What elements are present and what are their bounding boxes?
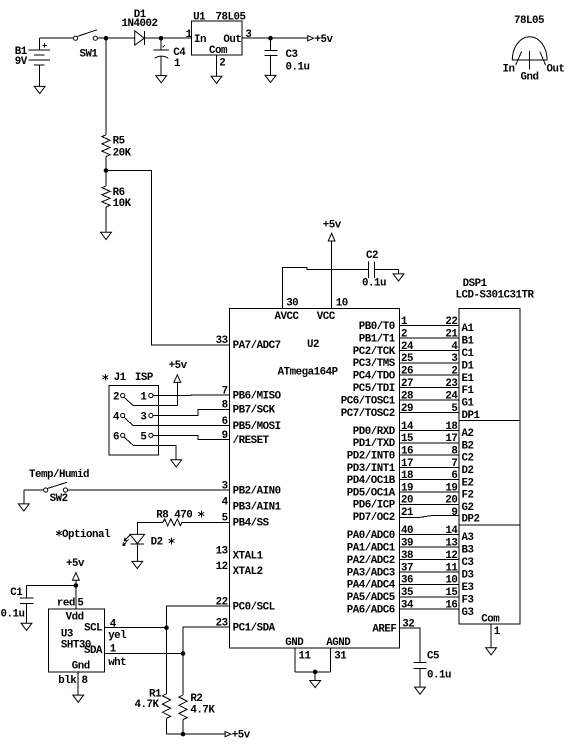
svg-text:B2: B2 bbox=[462, 440, 474, 452]
svg-text:G1: G1 bbox=[462, 398, 475, 410]
svg-text:1: 1 bbox=[140, 392, 147, 404]
connector J1 pins 4/3 bbox=[113, 412, 153, 426]
wire bbox=[166, 628, 168, 694]
svg-text:5: 5 bbox=[451, 403, 457, 415]
svg-text:0.1u: 0.1u bbox=[286, 61, 310, 73]
svg-text:33: 33 bbox=[216, 335, 228, 347]
svg-text:6: 6 bbox=[113, 431, 119, 443]
pin 31 AGND bbox=[326, 637, 351, 672]
power +5v bbox=[169, 360, 188, 406]
capacitor C3 0.1u bbox=[264, 38, 309, 75]
svg-text:wht: wht bbox=[108, 657, 126, 669]
wire PA3/ADC3 pin 37 to LCD D3 pin 11 bbox=[347, 562, 474, 581]
resistor R1 4.7K bbox=[135, 689, 171, 719]
switch SW2 bbox=[44, 482, 68, 505]
svg-text:32: 32 bbox=[402, 619, 414, 631]
node junction bbox=[159, 36, 164, 41]
asterisk bbox=[102, 374, 108, 381]
resistor R6 10K bbox=[102, 186, 132, 210]
svg-text:13: 13 bbox=[445, 537, 457, 549]
battery B1 bbox=[15, 38, 50, 86]
svg-text:VCC: VCC bbox=[317, 311, 336, 323]
wire PD2/INT0 pin 16 to LCD C2 pin 8 bbox=[347, 446, 474, 465]
svg-text:9: 9 bbox=[222, 430, 228, 442]
wire PA6/ADC6 pin 34 to LCD G3 pin 16 bbox=[347, 600, 474, 619]
svg-text:4: 4 bbox=[222, 497, 229, 509]
IC U2 ATmega164P bbox=[230, 308, 400, 647]
capacitor C4 1 bbox=[153, 38, 186, 75]
pin 23 label PC1/SDA bbox=[216, 617, 276, 634]
svg-text:34: 34 bbox=[401, 600, 414, 612]
ground bbox=[18, 504, 29, 511]
svg-text:29: 29 bbox=[401, 403, 413, 415]
wire bbox=[182, 720, 184, 735]
svg-text:4.7K: 4.7K bbox=[135, 699, 160, 711]
svg-text:8: 8 bbox=[451, 446, 457, 458]
ground bbox=[415, 687, 426, 694]
ground bbox=[310, 672, 321, 688]
resistor R2 4.7K bbox=[179, 693, 215, 720]
svg-text:DP2: DP2 bbox=[462, 513, 480, 525]
svg-text:PD4/OC1B: PD4/OC1B bbox=[347, 475, 396, 487]
svg-text:20: 20 bbox=[445, 495, 457, 507]
pin 7 label PB6/MISO bbox=[222, 385, 282, 402]
svg-text:E1: E1 bbox=[462, 373, 475, 385]
svg-text:37: 37 bbox=[401, 562, 413, 574]
svg-text:11: 11 bbox=[299, 650, 312, 662]
resistor R8 470 bbox=[156, 510, 192, 526]
svg-text:/RESET: /RESET bbox=[233, 435, 270, 447]
wire bbox=[182, 521, 230, 523]
svg-text:PC4/TDO: PC4/TDO bbox=[353, 371, 396, 383]
pin 3 label bbox=[245, 29, 251, 41]
regulator U1 78L05 bbox=[192, 12, 246, 57]
wire bbox=[242, 37, 308, 39]
wire PD5/OC1A pin 19 to LCD F2 pin 19 bbox=[347, 482, 474, 501]
svg-text:PB5/MOSI: PB5/MOSI bbox=[233, 421, 281, 433]
svg-text:14: 14 bbox=[401, 421, 414, 433]
node junction bbox=[313, 670, 318, 675]
svg-text:+5v: +5v bbox=[315, 34, 334, 46]
svg-text:4.7K: 4.7K bbox=[190, 704, 215, 716]
svg-text:+5v: +5v bbox=[232, 730, 251, 742]
pin 4 label PB3/AIN1 bbox=[222, 497, 282, 514]
pin 6 label PB5/MOSI bbox=[222, 416, 281, 433]
svg-text:C1: C1 bbox=[462, 348, 475, 360]
wire divider digit2 bbox=[459, 524, 520, 526]
svg-text:PD6/ICP: PD6/ICP bbox=[353, 500, 396, 512]
svg-text:19: 19 bbox=[401, 482, 413, 494]
svg-text:22: 22 bbox=[445, 316, 457, 328]
svg-text:SW2: SW2 bbox=[50, 493, 68, 505]
wire VCC pin 10 bbox=[317, 241, 348, 323]
svg-text:26: 26 bbox=[401, 366, 413, 378]
node junction bbox=[74, 583, 79, 588]
svg-text:SW1: SW1 bbox=[80, 49, 99, 61]
svg-text:U2: U2 bbox=[307, 339, 319, 351]
ground bbox=[486, 648, 497, 655]
svg-text:16: 16 bbox=[401, 446, 413, 458]
wire PB0/T0 pin 1 to LCD A1 pin 22 bbox=[359, 316, 475, 335]
svg-text:PB2/AIN0: PB2/AIN0 bbox=[233, 485, 281, 497]
svg-text:5: 5 bbox=[77, 597, 83, 609]
svg-text:PA2/ADC2: PA2/ADC2 bbox=[347, 555, 395, 567]
svg-text:1: 1 bbox=[494, 626, 501, 638]
svg-text:B3: B3 bbox=[462, 545, 474, 557]
svg-text:C3: C3 bbox=[286, 49, 298, 61]
svg-text:2: 2 bbox=[451, 366, 457, 378]
svg-text:XTAL2: XTAL2 bbox=[233, 566, 263, 578]
svg-text:PC0/SCL: PC0/SCL bbox=[233, 602, 275, 614]
svg-text:D2: D2 bbox=[462, 465, 474, 477]
wire PC4/TDO pin 26 to LCD E1 pin 2 bbox=[353, 366, 475, 385]
svg-text:17: 17 bbox=[401, 458, 413, 470]
wire bbox=[97, 37, 134, 39]
asterisk bbox=[198, 511, 204, 518]
svg-text:PB0/T0: PB0/T0 bbox=[359, 321, 395, 333]
svg-text:36: 36 bbox=[401, 575, 413, 587]
pin 2 label bbox=[219, 57, 225, 69]
wire bbox=[105, 157, 107, 186]
ground bbox=[34, 86, 45, 93]
svg-text:+5v: +5v bbox=[66, 558, 85, 570]
wire PA5/ADC5 pin 35 to LCD F3 pin 15 bbox=[347, 587, 474, 606]
svg-text:PA4/ADC4: PA4/ADC4 bbox=[347, 580, 396, 592]
svg-text:15: 15 bbox=[445, 587, 457, 599]
svg-text:J1: J1 bbox=[114, 372, 127, 384]
svg-text:9V: 9V bbox=[15, 56, 28, 68]
pin 13 label XTAL1 bbox=[216, 545, 264, 562]
svg-text:C2: C2 bbox=[366, 250, 378, 262]
svg-text:PB6/MISO: PB6/MISO bbox=[233, 390, 282, 402]
svg-text:8: 8 bbox=[82, 675, 88, 687]
svg-text:40: 40 bbox=[401, 525, 413, 537]
svg-text:blk: blk bbox=[58, 675, 77, 687]
svg-text:B1: B1 bbox=[462, 336, 475, 348]
svg-text:6: 6 bbox=[222, 416, 228, 428]
svg-text:4: 4 bbox=[451, 341, 458, 353]
wire bbox=[399, 628, 420, 662]
pin 11 GND bbox=[285, 637, 311, 672]
svg-text:12: 12 bbox=[216, 561, 228, 573]
wire PC5/TDI pin 27 to LCD F1 pin 23 bbox=[353, 378, 475, 397]
ground bbox=[156, 76, 167, 83]
svg-text:11: 11 bbox=[445, 562, 458, 574]
svg-text:PC6/TOSC1: PC6/TOSC1 bbox=[341, 395, 396, 407]
node junction bbox=[164, 625, 169, 630]
svg-text:1: 1 bbox=[174, 58, 181, 70]
svg-text:In: In bbox=[194, 34, 206, 46]
wire bbox=[40, 37, 74, 39]
svg-text:PC5/TDI: PC5/TDI bbox=[353, 383, 395, 395]
svg-text:27: 27 bbox=[401, 378, 413, 390]
svg-text:PC7/TOSC2: PC7/TOSC2 bbox=[341, 408, 395, 420]
svg-text:28: 28 bbox=[401, 390, 413, 402]
pin 9 label /RESET bbox=[222, 430, 270, 447]
svg-text:XTAL1: XTAL1 bbox=[233, 550, 264, 562]
svg-text:A3: A3 bbox=[462, 532, 474, 544]
display DSP1 LCD-S301C31TR box bbox=[456, 278, 535, 624]
svg-text:F1: F1 bbox=[462, 385, 475, 397]
svg-text:PC3/TMS: PC3/TMS bbox=[353, 358, 396, 370]
wire pin5 to /RESET bbox=[153, 435, 230, 439]
svg-text:Out: Out bbox=[547, 63, 565, 75]
wire bbox=[166, 718, 168, 734]
svg-text:78L05: 78L05 bbox=[514, 15, 544, 27]
label Optional bbox=[62, 529, 111, 541]
pin 8 label PB7/SCK bbox=[222, 400, 276, 417]
wire PC7/TOSC2 pin 29 to LCD DP1 pin 5 bbox=[341, 403, 481, 422]
connector J1 ISP box bbox=[109, 372, 159, 455]
svg-text:PD5/OC1A: PD5/OC1A bbox=[347, 487, 396, 499]
svg-text:6: 6 bbox=[451, 470, 457, 482]
wire PA1/ADC1 pin 39 to LCD B3 pin 13 bbox=[347, 537, 474, 556]
wire PD1/TXD pin 15 to LCD B2 pin 17 bbox=[353, 433, 474, 452]
sensor U3 SHT30 box bbox=[49, 609, 105, 673]
svg-text:23: 23 bbox=[216, 617, 228, 629]
svg-text:PB7/SCK: PB7/SCK bbox=[233, 405, 276, 417]
svg-text:C1: C1 bbox=[10, 587, 23, 599]
wire bbox=[137, 522, 163, 534]
switch SW1 bbox=[73, 30, 98, 61]
pin 22 label PC0/SCL bbox=[216, 597, 275, 614]
wire PA0/ADC0 pin 40 to LCD A3 pin 14 bbox=[347, 525, 474, 544]
svg-text:PD3/INT1: PD3/INT1 bbox=[347, 463, 396, 475]
power +5v bbox=[323, 219, 342, 241]
svg-text:0.1u: 0.1u bbox=[1, 609, 25, 621]
power +5v bbox=[225, 730, 251, 742]
wire bbox=[144, 37, 191, 39]
ground bbox=[101, 232, 112, 239]
svg-text:E2: E2 bbox=[462, 477, 474, 489]
svg-text:U1: U1 bbox=[193, 12, 206, 24]
svg-text:1: 1 bbox=[186, 29, 193, 41]
ground bbox=[211, 76, 222, 83]
svg-text:D2: D2 bbox=[151, 536, 163, 548]
svg-text:PB4/SS: PB4/SS bbox=[233, 518, 270, 530]
svg-text:Com: Com bbox=[209, 45, 228, 57]
svg-text:5: 5 bbox=[222, 513, 228, 525]
svg-text:PA3/ADC3: PA3/ADC3 bbox=[347, 567, 395, 579]
wire bbox=[216, 55, 218, 76]
svg-text:DP1: DP1 bbox=[462, 410, 481, 422]
wire pin 1 SDA bbox=[104, 643, 183, 669]
svg-text:Gnd: Gnd bbox=[521, 71, 539, 83]
wire bbox=[105, 207, 107, 232]
wire PC3/TMS pin 25 to LCD D1 pin 3 bbox=[353, 353, 475, 372]
wire bbox=[106, 171, 230, 345]
wire PA4/ADC4 pin 36 to LCD E3 pin 10 bbox=[347, 575, 474, 594]
svg-text:AVCC: AVCC bbox=[275, 311, 300, 323]
svg-text:10: 10 bbox=[445, 575, 457, 587]
wire divider digit1 bbox=[459, 419, 520, 421]
svg-text:24: 24 bbox=[445, 390, 458, 402]
svg-text:17: 17 bbox=[445, 433, 457, 445]
pin 33 label PA7/ADC7 bbox=[216, 335, 281, 352]
svg-text:15: 15 bbox=[401, 433, 413, 445]
svg-text:PD2/INT0: PD2/INT0 bbox=[347, 451, 395, 463]
svg-text:30: 30 bbox=[286, 298, 298, 310]
pin 32 AREF bbox=[372, 619, 414, 636]
wire bbox=[105, 38, 107, 134]
wire bbox=[27, 585, 76, 587]
svg-text:3: 3 bbox=[222, 480, 228, 492]
wire pin4 to PB5/MOSI bbox=[133, 424, 229, 426]
wire bbox=[295, 671, 331, 673]
svg-text:R5: R5 bbox=[113, 136, 125, 148]
svg-text:19: 19 bbox=[445, 482, 457, 494]
capacitor C5 0.1u bbox=[414, 651, 451, 687]
ground bbox=[171, 460, 182, 467]
svg-text:1: 1 bbox=[110, 643, 117, 655]
svg-text:F2: F2 bbox=[462, 490, 474, 502]
wire pin 4 SCL bbox=[104, 618, 166, 642]
wire SCL to PC0/SCL bbox=[167, 606, 230, 628]
svg-text:16: 16 bbox=[445, 600, 457, 612]
node junction bbox=[181, 732, 186, 737]
svg-text:AGND: AGND bbox=[326, 637, 351, 649]
wire bbox=[136, 544, 138, 562]
svg-text:R2: R2 bbox=[190, 693, 202, 705]
svg-text:PD7/OC2: PD7/OC2 bbox=[353, 512, 395, 524]
svg-text:3: 3 bbox=[451, 353, 457, 365]
svg-text:E3: E3 bbox=[462, 582, 474, 594]
svg-text:23: 23 bbox=[445, 378, 457, 390]
svg-text:10K: 10K bbox=[113, 198, 132, 210]
wire bbox=[68, 489, 230, 491]
svg-text:7: 7 bbox=[222, 385, 228, 397]
svg-text:1: 1 bbox=[401, 316, 408, 328]
connector J1 pins 2/1 bbox=[113, 392, 153, 406]
wire bbox=[24, 489, 44, 491]
power +5v bbox=[66, 558, 85, 585]
wire AVCC pin 30 bbox=[275, 267, 332, 323]
svg-text:C3: C3 bbox=[462, 557, 474, 569]
svg-text:AREF: AREF bbox=[372, 624, 396, 636]
asterisk bbox=[56, 530, 62, 537]
svg-text:PA7/ADC7: PA7/ADC7 bbox=[233, 340, 281, 352]
svg-text:0.1u: 0.1u bbox=[362, 277, 386, 289]
wire PD6/ICP pin 20 to LCD G2 pin 20 bbox=[353, 495, 474, 514]
svg-text:10: 10 bbox=[336, 298, 348, 310]
wire bbox=[182, 654, 184, 696]
svg-text:D3: D3 bbox=[462, 570, 474, 582]
svg-text:DSP1: DSP1 bbox=[463, 278, 488, 290]
svg-text:A1: A1 bbox=[462, 323, 475, 335]
svg-text:PA6/ADC6: PA6/ADC6 bbox=[347, 605, 395, 617]
pin 1 Com of DSP1 bbox=[481, 614, 500, 648]
wire bbox=[167, 733, 226, 735]
svg-text:5: 5 bbox=[140, 431, 146, 443]
ground bbox=[265, 75, 276, 82]
svg-text:12: 12 bbox=[445, 550, 457, 562]
svg-text:Optional: Optional bbox=[62, 529, 111, 541]
svg-text:PD0/RXD: PD0/RXD bbox=[353, 426, 396, 438]
svg-text:31: 31 bbox=[334, 650, 347, 662]
pin 5 label PB4/SS bbox=[222, 513, 270, 530]
wire PA2/ADC2 pin 38 to LCD C3 pin 12 bbox=[347, 550, 474, 569]
wire bbox=[23, 490, 25, 504]
wire PD7/OC2 pin 21 to LCD DP2 pin 9 bbox=[353, 507, 480, 525]
svg-text:SCL: SCL bbox=[84, 622, 102, 634]
pin 3 label PB2/AIN0 bbox=[222, 480, 281, 497]
pin 1 label bbox=[186, 29, 193, 41]
svg-text:LCD-S301C31TR: LCD-S301C31TR bbox=[456, 290, 535, 302]
svg-text:PC1/SDA: PC1/SDA bbox=[233, 622, 276, 634]
wire pin1 to PB6/MISO bbox=[153, 394, 230, 397]
svg-text:A2: A2 bbox=[462, 428, 474, 440]
svg-text:R8 470: R8 470 bbox=[156, 510, 192, 522]
svg-text:7: 7 bbox=[451, 458, 457, 470]
svg-text:R6: R6 bbox=[113, 187, 125, 199]
svg-text:2: 2 bbox=[113, 392, 119, 404]
svg-text:78L05: 78L05 bbox=[216, 12, 246, 24]
svg-text:3: 3 bbox=[245, 29, 251, 41]
svg-text:PB1/T1: PB1/T1 bbox=[359, 333, 396, 345]
label Temp/Humid bbox=[29, 469, 89, 481]
diode D1 1N4002 bbox=[122, 9, 158, 45]
wire PC2/TCK pin 24 to LCD C1 pin 4 bbox=[353, 341, 475, 360]
svg-text:Com: Com bbox=[481, 614, 500, 626]
svg-text:21: 21 bbox=[445, 328, 458, 340]
svg-text:4: 4 bbox=[110, 618, 117, 630]
svg-text:21: 21 bbox=[401, 507, 414, 519]
wire PB1/T1 pin 2 to LCD B1 pin 21 bbox=[359, 328, 475, 347]
svg-text:Vdd: Vdd bbox=[66, 612, 84, 624]
wire PC6/TOSC1 pin 28 to LCD G1 pin 24 bbox=[341, 390, 475, 409]
svg-text:PA1/ADC1: PA1/ADC1 bbox=[347, 542, 396, 554]
node junction bbox=[104, 36, 109, 41]
svg-text:PC2/TCK: PC2/TCK bbox=[353, 346, 396, 358]
wire PD0/RXD pin 14 to LCD A2 pin 18 bbox=[353, 421, 474, 440]
svg-text:Temp/Humid: Temp/Humid bbox=[29, 469, 89, 481]
svg-text:PA0/ADC0: PA0/ADC0 bbox=[347, 530, 395, 542]
resistor R5 20K bbox=[102, 135, 132, 160]
svg-text:9: 9 bbox=[451, 507, 457, 519]
svg-text:SDA: SDA bbox=[84, 645, 103, 657]
svg-text:G2: G2 bbox=[462, 502, 474, 514]
svg-text:In: In bbox=[503, 63, 515, 75]
svg-text:2: 2 bbox=[401, 328, 407, 340]
svg-text:PB3/AIN1: PB3/AIN1 bbox=[233, 502, 282, 514]
svg-text:13: 13 bbox=[216, 545, 228, 557]
svg-text:24: 24 bbox=[401, 341, 414, 353]
ground bbox=[73, 695, 84, 702]
wire PD3/INT1 pin 17 to LCD D2 pin 7 bbox=[347, 458, 474, 477]
svg-text:18: 18 bbox=[401, 470, 413, 482]
svg-text:39: 39 bbox=[401, 537, 413, 549]
wire pin 5 Vdd bbox=[57, 586, 84, 610]
svg-text:8: 8 bbox=[222, 400, 228, 412]
svg-text:C5: C5 bbox=[427, 651, 439, 663]
svg-text:PA5/ADC5: PA5/ADC5 bbox=[347, 592, 395, 604]
wire pin 8 Gnd bbox=[58, 672, 87, 695]
svg-text:20K: 20K bbox=[113, 148, 132, 160]
svg-text:yel: yel bbox=[108, 630, 127, 642]
78L05 package outline bbox=[503, 15, 565, 83]
svg-text:+5v: +5v bbox=[169, 360, 188, 372]
wire pin2 to +5v bbox=[133, 405, 177, 407]
svg-text:F3: F3 bbox=[462, 594, 474, 606]
svg-text:GND: GND bbox=[285, 637, 304, 649]
svg-text:G3: G3 bbox=[462, 607, 474, 619]
svg-text:Gnd: Gnd bbox=[72, 660, 90, 672]
svg-text:D1: D1 bbox=[462, 360, 475, 372]
svg-text:+5v: +5v bbox=[323, 219, 342, 231]
svg-text:14: 14 bbox=[445, 525, 458, 537]
wire pin6 to ground bbox=[133, 445, 176, 460]
svg-text:red: red bbox=[57, 598, 75, 610]
